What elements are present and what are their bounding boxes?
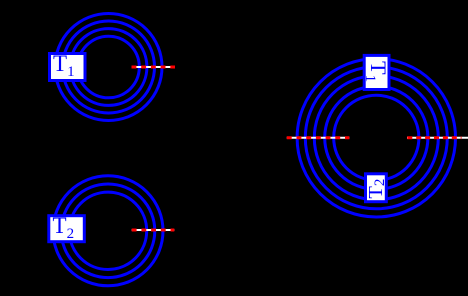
coil T2 (bottom-left), turn 3 outer xyxy=(53,176,163,286)
label box T1 (right, top) xyxy=(364,55,389,89)
label box T1 (top-left) xyxy=(50,54,86,81)
combined coil left midplane line (red dashes) xyxy=(287,136,350,139)
T1 midplane line (white underlay) xyxy=(132,66,176,68)
combined coil (right), turn 4 xyxy=(305,67,447,209)
label box T2 (right, bottom) xyxy=(366,174,387,202)
coil T1 (top-left), turn 3 xyxy=(63,21,155,113)
coil T1 (top-left), turn 2 xyxy=(70,29,147,106)
T1 midplane line (red dashes) xyxy=(132,66,176,69)
T2 midplane line (white underlay) xyxy=(132,229,175,231)
coil T2 (bottom-left), turn 2 xyxy=(61,184,155,278)
T2 midplane line (red dashes) xyxy=(132,229,175,232)
combined coil right midplane line (white underlay) xyxy=(407,137,468,139)
combined coil (right), turn 1 inner xyxy=(334,95,419,180)
combined coil left midplane line (white underlay) xyxy=(287,137,350,139)
coil T1 (top-left), turn 4 outer xyxy=(55,14,162,121)
combined coil right midplane line (red dashes) xyxy=(407,136,461,139)
coil T1 (top-left), turn 1 inner xyxy=(78,36,140,98)
combined coil (right), turn 5 outer xyxy=(297,59,455,217)
label box T2 (bottom-left) xyxy=(49,216,85,242)
combined coil (right), turn 3 xyxy=(314,76,438,200)
coil T2 (bottom-left), turn 1 inner xyxy=(69,192,146,269)
combined coil (right), turn 2 xyxy=(325,86,428,189)
